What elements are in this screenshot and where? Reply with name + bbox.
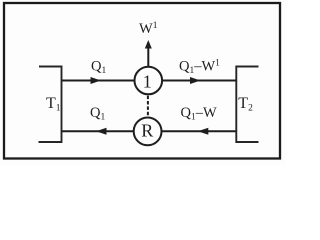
arrowhead Q1-W1 right-pointing [190,77,201,84]
wire Q1 from T1 to engine 1 [62,80,135,82]
reservoir T1 bracket [39,67,62,143]
engine circle R [134,117,162,145]
wire Q1 from engine R to T1 [62,130,135,132]
wire W1 up from engine 1 [147,47,149,67]
arrowhead Q1-W left-pointing [198,128,209,135]
svg-text:Q1–W1: Q1–W1 [179,59,220,77]
dashed link between engines [147,96,149,119]
svg-text:R: R [141,121,153,141]
reservoir T2 bracket [236,67,258,143]
svg-text:Q1–W: Q1–W [181,105,217,123]
engine circle 1 [135,67,163,95]
outer border frame [4,3,280,159]
wire Q1-W from T2 to engine R [162,130,237,132]
arrowhead Q1 left-pointing [96,128,107,135]
wire Q1-W1 from engine 1 to T2 [162,80,236,82]
arrowhead Q1 right-pointing [91,77,102,84]
svg-text:1: 1 [143,72,152,92]
arrowhead W1 up-pointing [145,40,152,49]
